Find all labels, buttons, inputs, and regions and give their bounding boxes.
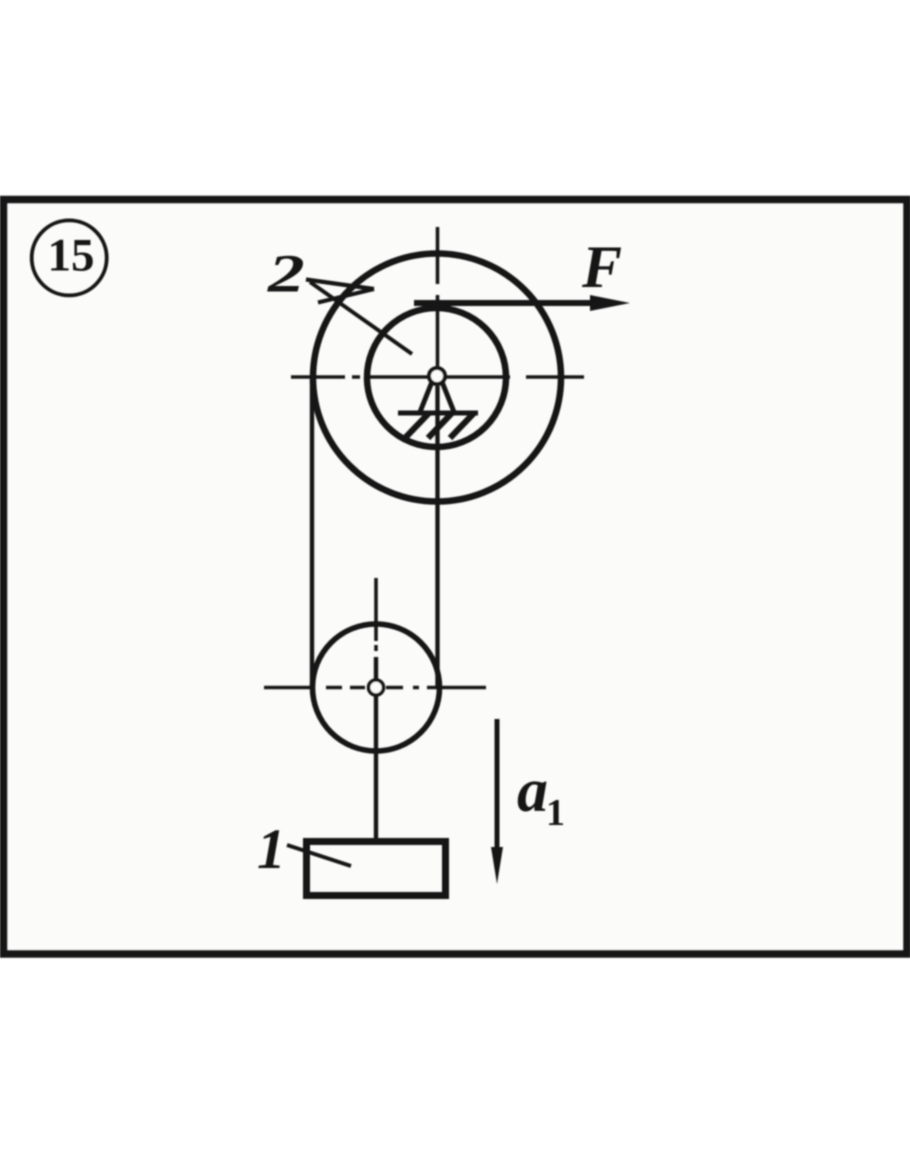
leader line of label 2 to inner circle — [310, 282, 412, 354]
leader line of label 1 — [287, 845, 351, 866]
axle pin of lower pulley — [369, 680, 384, 695]
fixed support legs — [420, 383, 454, 412]
support ground line — [398, 411, 478, 416]
svg-text:15: 15 — [48, 230, 95, 282]
block 1 — [307, 842, 446, 896]
svg-text:F: F — [581, 234, 622, 300]
acceleration a1 arrow line — [495, 719, 500, 852]
svg-text:2: 2 — [267, 244, 305, 303]
wire: right rope from pulley 2 down to lower pulley — [435, 386, 439, 689]
horizontal centerline of pulley 2 — [291, 375, 584, 379]
leader arrow of label 2 to outer circle — [306, 280, 374, 303]
vertical centerline of pulley 2 — [436, 227, 440, 366]
horizontal centerline of lower pulley — [264, 686, 486, 690]
force F arrow line — [414, 300, 594, 306]
problem number circle 15 — [32, 220, 107, 295]
vertical centerline of lower pulley — [374, 578, 378, 651]
arrowhead of a1 — [491, 847, 503, 884]
support hatching — [405, 413, 474, 438]
svg-text:1: 1 — [546, 792, 565, 834]
pivot pin of pulley 2 — [429, 368, 445, 384]
svg-text:1: 1 — [257, 818, 286, 881]
wire: rope from lower pulley axle down to block 1 — [374, 657, 378, 841]
pulley 2 outer circle — [313, 254, 561, 502]
lower pulley circle — [313, 624, 440, 751]
svg-text:a: a — [517, 757, 548, 825]
arrowhead of force F — [590, 295, 630, 311]
pulley 2 inner circle — [367, 308, 506, 447]
wire: left rope from pulley 2 outer rim down to lower pulley — [310, 380, 314, 687]
border frame — [4, 200, 908, 955]
